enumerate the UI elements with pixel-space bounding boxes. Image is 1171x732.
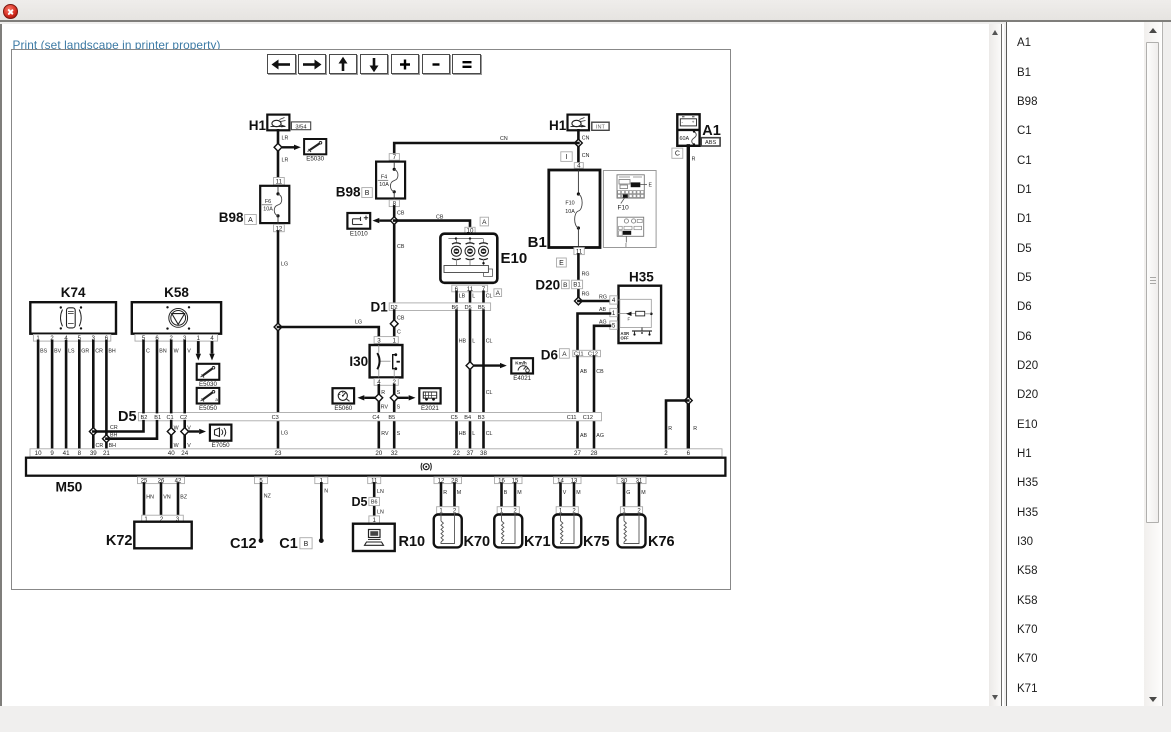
siren K72 bbox=[106, 515, 192, 549]
svg-text:11: 11 bbox=[276, 178, 283, 185]
M50 bottom pins 14 13 bbox=[554, 477, 582, 485]
svg-text:H35: H35 bbox=[629, 270, 654, 285]
svg-text:HN: HN bbox=[146, 495, 154, 501]
main white panel bbox=[0, 24, 1004, 706]
svg-text:AB: AB bbox=[599, 307, 607, 313]
wire VN bbox=[160, 484, 163, 516]
wire HB bbox=[455, 311, 458, 449]
relay K70 bbox=[434, 507, 490, 550]
terminal C12 bbox=[230, 536, 263, 552]
junction node LG bbox=[274, 323, 282, 331]
svg-text:27: 27 bbox=[574, 450, 581, 457]
wire BZ bbox=[177, 484, 180, 516]
connector strip D5 pin labels bbox=[140, 413, 593, 421]
junction node on LR bbox=[274, 143, 282, 151]
wire CN from H1 right bbox=[577, 130, 580, 162]
svg-text:I: I bbox=[625, 243, 626, 249]
svg-text:AB: AB bbox=[580, 433, 588, 439]
svg-text:BS: BS bbox=[40, 349, 48, 355]
print link bbox=[13, 38, 221, 52]
svg-text:C3: C3 bbox=[272, 415, 279, 421]
svg-text:F10: F10 bbox=[618, 205, 630, 212]
svg-text:M: M bbox=[457, 490, 461, 496]
svg-text:B: B bbox=[563, 282, 567, 289]
svg-text:INT: INT bbox=[596, 125, 606, 131]
svg-text:R: R bbox=[443, 490, 447, 496]
relay K76 bbox=[618, 507, 675, 550]
svg-text:HB: HB bbox=[459, 339, 467, 345]
svg-text:BZ: BZ bbox=[180, 495, 188, 501]
wire L with branch to E4021 bbox=[469, 311, 472, 449]
wire CL bbox=[482, 292, 485, 303]
svg-text:RV: RV bbox=[381, 431, 389, 437]
body computer M50 bbox=[26, 458, 725, 495]
svg-text:CL: CL bbox=[486, 431, 493, 437]
svg-text:F6: F6 bbox=[265, 199, 271, 205]
svg-text:21: 21 bbox=[103, 450, 110, 457]
wire CR from K74 bbox=[92, 341, 95, 449]
svg-text:C1: C1 bbox=[167, 415, 174, 421]
svg-text:60A: 60A bbox=[680, 136, 690, 142]
wire AB from H35 bbox=[578, 314, 611, 351]
svg-text:ABS: ABS bbox=[705, 140, 716, 146]
wire CL down bbox=[482, 311, 485, 449]
window title bar bbox=[0, 0, 1171, 22]
wire NZ to C12 bbox=[260, 484, 263, 539]
wire HN bbox=[143, 484, 146, 516]
svg-text:K71: K71 bbox=[524, 534, 551, 550]
svg-text:CB: CB bbox=[397, 244, 405, 250]
arrow from K58 pin 1 to E5030 bbox=[197, 341, 200, 354]
svg-text:C4: C4 bbox=[372, 415, 379, 421]
connector strip D5 bbox=[118, 409, 601, 425]
svg-text:3/54: 3/54 bbox=[295, 124, 307, 130]
svg-text:+: + bbox=[692, 120, 695, 125]
speed signal E4021 bbox=[511, 358, 533, 382]
svg-text:B: B bbox=[365, 190, 370, 197]
svg-text:VN: VN bbox=[163, 495, 171, 501]
svg-text:RG: RG bbox=[582, 291, 590, 297]
svg-text:C12: C12 bbox=[230, 536, 257, 552]
wire N to C1 bbox=[320, 484, 323, 539]
M50 bottom pin 1 bbox=[315, 477, 328, 485]
svg-text:4: 4 bbox=[577, 163, 581, 170]
wire CB to E10 pin 10 bbox=[394, 221, 470, 228]
svg-text:BH: BH bbox=[109, 443, 117, 449]
wire M to K75 bbox=[573, 484, 576, 507]
svg-text:C11: C11 bbox=[567, 415, 577, 421]
M50 bottom pins 30 31 bbox=[617, 477, 646, 485]
svg-text:38: 38 bbox=[480, 450, 487, 457]
svg-text:CR: CR bbox=[96, 443, 104, 449]
svg-text:B98: B98 bbox=[219, 210, 244, 225]
svg-text:32: 32 bbox=[391, 450, 398, 457]
wire S below I30 bbox=[393, 385, 396, 449]
svg-text:K58: K58 bbox=[164, 285, 189, 300]
button zoom out bbox=[422, 54, 451, 74]
relay K75 bbox=[553, 507, 609, 550]
close button bbox=[3, 4, 18, 19]
svg-text:E: E bbox=[649, 183, 653, 189]
svg-text:A: A bbox=[482, 219, 487, 226]
label 3/54 bbox=[291, 122, 310, 130]
svg-text:E7050: E7050 bbox=[212, 442, 230, 449]
svg-text:W: W bbox=[174, 349, 179, 355]
sidebar panel with component list bbox=[1006, 22, 1163, 706]
svg-text:C5: C5 bbox=[451, 415, 458, 421]
svg-text:D1: D1 bbox=[371, 300, 389, 315]
svg-text:40: 40 bbox=[168, 450, 175, 457]
button pan left bbox=[267, 54, 296, 74]
svg-text:M: M bbox=[641, 490, 645, 496]
svg-text:E1010: E1010 bbox=[350, 231, 368, 238]
wire RG from B1 bbox=[577, 255, 580, 298]
wire CN horizontal to B98-B bbox=[394, 143, 578, 154]
svg-text:E5030: E5030 bbox=[306, 156, 324, 163]
wire AB down to M50 pin 27 bbox=[576, 357, 579, 449]
button pan up bbox=[329, 54, 358, 74]
wire C from K58 bbox=[142, 341, 145, 412]
svg-text:F10: F10 bbox=[565, 201, 574, 207]
schematic drawing bbox=[11, 49, 731, 590]
svg-text:L: L bbox=[472, 294, 475, 300]
svg-text:1: 1 bbox=[392, 337, 396, 344]
wire LR from H1 bbox=[277, 130, 280, 177]
svg-text:B4: B4 bbox=[464, 415, 471, 421]
svg-text:R10: R10 bbox=[399, 534, 426, 550]
wire LB bbox=[455, 292, 458, 303]
svg-text:GR: GR bbox=[81, 349, 89, 355]
relay I30 bbox=[349, 337, 402, 387]
svg-text:BN: BN bbox=[159, 349, 167, 355]
svg-text:B: B bbox=[504, 490, 508, 496]
svg-text:BH: BH bbox=[110, 433, 118, 439]
svg-text:E5060: E5060 bbox=[334, 405, 352, 412]
main panel scrollbar bbox=[989, 24, 1002, 706]
svg-text:CN: CN bbox=[500, 136, 508, 142]
svg-text:CL: CL bbox=[486, 294, 493, 300]
svg-text:K76: K76 bbox=[648, 534, 675, 550]
svg-text:C2: C2 bbox=[180, 415, 187, 421]
M50 bottom pins 16 15 bbox=[495, 477, 523, 485]
lamp H1 (left) bbox=[249, 115, 290, 133]
connector D20-B pin B1 bbox=[535, 278, 582, 293]
svg-text:LG: LG bbox=[355, 320, 362, 326]
svg-text:CB: CB bbox=[397, 316, 405, 322]
connector label C bbox=[672, 148, 683, 158]
diagram frame bbox=[11, 49, 731, 590]
svg-text:S: S bbox=[397, 431, 401, 437]
svg-text:R: R bbox=[381, 390, 385, 396]
svg-text:CL: CL bbox=[486, 339, 493, 345]
svg-text:CR: CR bbox=[95, 349, 103, 355]
ground point E7050 bbox=[210, 425, 232, 450]
button zoom in bbox=[391, 54, 420, 74]
svg-text:C: C bbox=[675, 151, 680, 158]
svg-text:D5: D5 bbox=[118, 409, 137, 425]
fuse box B98-A (F6 10A) bbox=[219, 178, 290, 233]
svg-text:F: F bbox=[628, 317, 631, 322]
svg-text:B1: B1 bbox=[154, 415, 161, 421]
svg-text:M50: M50 bbox=[56, 480, 83, 495]
svg-text:C: C bbox=[397, 330, 401, 336]
connector label E bbox=[557, 258, 567, 267]
svg-text:E4021: E4021 bbox=[513, 375, 531, 382]
wire L bbox=[469, 292, 472, 303]
svg-text:G: G bbox=[626, 490, 630, 496]
fuse box B98-B (F4 10A) bbox=[336, 154, 405, 208]
svg-text:AB: AB bbox=[580, 369, 588, 375]
fuse location reference F10 bbox=[603, 171, 656, 249]
svg-text:LS: LS bbox=[68, 349, 75, 355]
svg-text:A1: A1 bbox=[702, 123, 721, 139]
switch H35 (ASR OFF) bbox=[610, 270, 661, 344]
junction node R bbox=[375, 394, 383, 402]
junction node W bbox=[167, 428, 175, 436]
svg-text:4: 4 bbox=[612, 297, 616, 304]
junction node CB bbox=[390, 217, 398, 225]
svg-text:HB: HB bbox=[459, 431, 467, 437]
ground point E5030 (top) bbox=[304, 139, 326, 163]
svg-text:CL: CL bbox=[486, 390, 493, 396]
arrow from K58 pin 4 to E5050 bbox=[211, 341, 214, 354]
svg-text:LB: LB bbox=[459, 294, 466, 300]
svg-text:LR: LR bbox=[282, 158, 289, 164]
toolbar buttons bbox=[266, 54, 269, 74]
svg-text:BV: BV bbox=[54, 349, 62, 355]
wire RG to H35 pin 4 bbox=[578, 300, 610, 303]
svg-text:R: R bbox=[692, 157, 696, 163]
svg-text:E10: E10 bbox=[501, 250, 528, 267]
svg-text:20: 20 bbox=[375, 450, 382, 457]
connector D5 pin B6 bbox=[352, 495, 380, 524]
wire B to K71 bbox=[500, 484, 503, 507]
svg-text:E: E bbox=[559, 260, 564, 267]
svg-text:B6: B6 bbox=[371, 499, 378, 505]
svg-text:CB: CB bbox=[596, 369, 604, 375]
svg-text:I30: I30 bbox=[349, 354, 368, 369]
arrow to battery point E1010 bbox=[379, 219, 390, 221]
battery positive E1010 bbox=[347, 213, 370, 238]
svg-text:BH: BH bbox=[108, 349, 116, 355]
svg-text:M: M bbox=[576, 490, 580, 496]
svg-text:CR: CR bbox=[110, 425, 118, 431]
svg-text:N: N bbox=[324, 489, 328, 495]
svg-text:B2: B2 bbox=[141, 415, 148, 421]
M50 bottom pins 25 26 42 bbox=[138, 477, 185, 485]
ground point E5050 bbox=[197, 388, 220, 412]
wire M to K71 bbox=[514, 484, 517, 507]
svg-text:B98: B98 bbox=[336, 185, 361, 200]
connector strip D1 bbox=[371, 300, 491, 315]
svg-text:LG: LG bbox=[281, 431, 288, 437]
svg-text:10A: 10A bbox=[379, 182, 389, 188]
svg-text:10A: 10A bbox=[565, 209, 575, 215]
wire BN from K58 bbox=[156, 341, 159, 412]
relay K71 bbox=[494, 507, 550, 550]
svg-text:8: 8 bbox=[78, 450, 82, 457]
svg-text:K72: K72 bbox=[106, 533, 133, 549]
svg-text:23: 23 bbox=[275, 450, 282, 457]
svg-text:C12: C12 bbox=[583, 415, 593, 421]
wire W from K58 bbox=[170, 341, 173, 449]
sidebar scrollbar bbox=[1144, 22, 1161, 706]
svg-text:A: A bbox=[496, 290, 501, 297]
svg-text:W: W bbox=[174, 443, 179, 449]
wire CR to D5 pin B2 bbox=[93, 421, 143, 432]
wire AG from H35 bbox=[594, 326, 610, 351]
wire R to K70 bbox=[440, 484, 443, 507]
svg-text:CB: CB bbox=[436, 214, 444, 220]
svg-text:LN: LN bbox=[377, 489, 384, 495]
svg-text:V: V bbox=[187, 349, 191, 355]
svg-text:28: 28 bbox=[591, 450, 598, 457]
svg-text:S: S bbox=[397, 405, 401, 411]
junction node BH bbox=[103, 435, 111, 443]
wire M to K70 bbox=[453, 484, 456, 507]
svg-text:5: 5 bbox=[612, 322, 616, 329]
svg-text:9: 9 bbox=[50, 450, 54, 457]
warning lamp cluster E10 bbox=[440, 234, 527, 283]
ground point E2021 bbox=[419, 388, 440, 412]
svg-text:H1: H1 bbox=[249, 118, 267, 133]
E10 bottom pins 6 11 7 bbox=[452, 285, 502, 297]
junction node V bbox=[181, 428, 189, 436]
svg-text:H1: H1 bbox=[549, 118, 567, 133]
svg-text:L: L bbox=[472, 339, 475, 345]
wire V from K58 bbox=[183, 341, 186, 449]
svg-text:V: V bbox=[563, 490, 567, 496]
wire LG horizontal to I30 bbox=[278, 327, 379, 337]
svg-text:E2021: E2021 bbox=[421, 405, 439, 412]
svg-text:LN: LN bbox=[377, 510, 384, 516]
svg-text:AG: AG bbox=[596, 433, 604, 439]
svg-text:LR: LR bbox=[282, 136, 289, 142]
svg-text:10A: 10A bbox=[263, 206, 273, 212]
junction node L bbox=[466, 362, 474, 370]
arrow to E5060 bbox=[364, 397, 375, 399]
wire BH to D5 pin B1 bbox=[106, 421, 157, 439]
connector label A / pin 10 of E10 bbox=[465, 217, 489, 234]
control unit K58 bbox=[132, 285, 221, 342]
svg-text:R: R bbox=[668, 426, 672, 432]
svg-text:24: 24 bbox=[181, 450, 188, 457]
control unit K74 bbox=[30, 285, 116, 342]
label INT bbox=[592, 122, 609, 131]
svg-text:K70: K70 bbox=[464, 534, 491, 550]
M50 bottom pin 11 bbox=[368, 477, 381, 485]
lamp H1 (right, INT) bbox=[549, 115, 589, 133]
svg-text:AG: AG bbox=[599, 319, 607, 325]
wire BH from K74 bbox=[105, 341, 108, 449]
svg-text:CB: CB bbox=[397, 211, 405, 217]
svg-text:41: 41 bbox=[63, 450, 70, 457]
wire V to K75 bbox=[559, 484, 562, 507]
label ABS bbox=[701, 138, 720, 147]
terminal C1-B bbox=[279, 536, 323, 552]
scrollbar thumb bbox=[1146, 42, 1160, 523]
wire CB below D1 to I30 bbox=[393, 311, 396, 338]
ground point E5030 (lower) bbox=[197, 364, 220, 388]
svg-text:B: B bbox=[304, 541, 309, 548]
svg-text:39: 39 bbox=[90, 450, 97, 457]
arrow to E2021 bbox=[398, 397, 409, 399]
svg-text:1: 1 bbox=[612, 310, 616, 317]
svg-text:CN: CN bbox=[582, 136, 590, 142]
svg-text:D5: D5 bbox=[352, 495, 368, 509]
wires BS BV LS GR from K74 bbox=[37, 341, 40, 449]
svg-text:LG: LG bbox=[281, 262, 288, 268]
svg-text:C1: C1 bbox=[279, 536, 298, 552]
M50 bottom pin 5 bbox=[255, 477, 268, 485]
svg-text:B5: B5 bbox=[388, 415, 395, 421]
connector label I bbox=[561, 152, 572, 162]
wire R below I30 bbox=[377, 385, 380, 449]
svg-text:2: 2 bbox=[664, 450, 668, 457]
svg-text:D20: D20 bbox=[535, 278, 560, 293]
svg-text:RG: RG bbox=[582, 272, 590, 278]
svg-text:10: 10 bbox=[35, 450, 42, 457]
M50 bottom pins 12 28 bbox=[434, 477, 462, 485]
svg-text:7: 7 bbox=[393, 154, 397, 161]
fuse box B1 (F10 10A) bbox=[528, 170, 600, 255]
wire AG down to M50 pin 28 bbox=[593, 357, 596, 449]
wire LN through D5-B6 bbox=[373, 484, 376, 524]
junction node S bbox=[390, 394, 398, 402]
svg-text:S: S bbox=[397, 390, 401, 396]
svg-text:RV: RV bbox=[381, 405, 389, 411]
svg-text:D6: D6 bbox=[541, 348, 559, 363]
svg-text:K75: K75 bbox=[583, 534, 610, 550]
svg-text:B1: B1 bbox=[573, 282, 581, 289]
wire R from A1 battery bbox=[687, 146, 690, 449]
svg-text:B1: B1 bbox=[528, 234, 547, 251]
button pan right bbox=[298, 54, 327, 74]
pin 4 of B1 bbox=[574, 163, 583, 169]
junction node CR bbox=[89, 428, 97, 436]
svg-text:A: A bbox=[248, 217, 253, 224]
svg-text:V: V bbox=[187, 443, 191, 449]
svg-text:22: 22 bbox=[453, 450, 460, 457]
svg-text:OFF: OFF bbox=[621, 336, 630, 341]
svg-text:R: R bbox=[693, 426, 697, 432]
svg-text:A: A bbox=[562, 351, 567, 358]
battery A1 bbox=[677, 114, 721, 146]
junction node C bbox=[390, 320, 398, 328]
wire LG from B98-A down bbox=[277, 232, 280, 449]
svg-text:F4: F4 bbox=[381, 175, 387, 181]
connector strip D6-A (C11 C12) bbox=[541, 348, 601, 363]
arrow to E7050 bbox=[189, 430, 200, 432]
junction node R bbox=[684, 397, 692, 405]
junction node CN bbox=[575, 139, 583, 147]
svg-text:37: 37 bbox=[467, 450, 474, 457]
svg-text:CN: CN bbox=[582, 153, 590, 159]
diagnostic socket R10 bbox=[353, 524, 425, 551]
svg-text:B3: B3 bbox=[478, 415, 485, 421]
wire M to K76 bbox=[638, 484, 641, 507]
wire R branch to pin 2 bbox=[666, 401, 688, 449]
svg-text:I: I bbox=[566, 154, 568, 161]
junction node RG bbox=[575, 297, 583, 305]
svg-text:M: M bbox=[517, 490, 521, 496]
svg-text:3: 3 bbox=[377, 337, 381, 344]
button pan down bbox=[360, 54, 389, 74]
svg-text:E5050: E5050 bbox=[199, 405, 217, 412]
svg-text:K74: K74 bbox=[61, 285, 86, 300]
svg-text:L: L bbox=[472, 431, 475, 437]
svg-text:6: 6 bbox=[687, 450, 691, 457]
